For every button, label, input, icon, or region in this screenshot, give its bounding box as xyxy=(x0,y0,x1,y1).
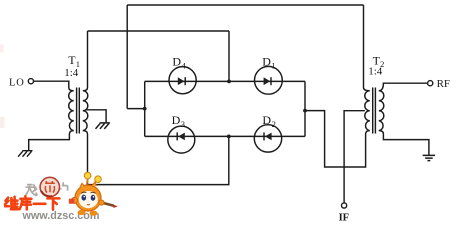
svg-text:RF: RF xyxy=(437,78,450,90)
ground: LO side hatch xyxy=(18,151,32,157)
transformer T2 secondary winding with RF lead and bottom lead xyxy=(379,83,429,155)
wire: T1 center tap xyxy=(86,110,106,123)
transformer T1 secondary winding with top lead and bottom wire to bottom node xyxy=(83,31,229,185)
node: right node xyxy=(303,109,307,113)
transformer T1 core xyxy=(77,88,80,134)
node: top junction xyxy=(227,80,231,84)
watermark mascot head xyxy=(75,185,101,211)
watermark orange char wei xyxy=(5,197,18,210)
svg-text:1: 1 xyxy=(271,61,275,71)
transformer T2 core xyxy=(373,88,376,134)
watermark orange char ku xyxy=(20,196,32,209)
watermark mascot left hand with red chip xyxy=(72,197,78,203)
svg-text:1:4: 1:4 xyxy=(368,66,383,78)
svg-text:D: D xyxy=(262,55,271,69)
svg-text:1:4: 1:4 xyxy=(64,67,79,79)
diode D2 triangle xyxy=(265,133,272,141)
diode D4 cathode bar xyxy=(184,77,186,85)
diode D1 cathode bar xyxy=(270,77,272,85)
diode D1 triangle xyxy=(264,77,271,85)
wire: inner top horizontal xyxy=(88,30,230,32)
watermark mascot face xyxy=(79,191,98,208)
diode D1 circle xyxy=(255,66,283,94)
wire: inner right vertical to top node xyxy=(228,31,230,81)
diode D3 triangle xyxy=(178,133,185,141)
port RF xyxy=(428,81,433,86)
transformer T2 primary winding with top lead xyxy=(364,5,370,134)
watermark mascot feet xyxy=(78,210,86,215)
svg-text:www.dzsc.com: www.dzsc.com xyxy=(22,210,100,222)
svg-text:2: 2 xyxy=(272,119,276,129)
port IF xyxy=(342,203,347,208)
diode D3 cathode bar xyxy=(176,132,178,140)
svg-text:4: 4 xyxy=(182,61,187,71)
wire: bridge top row xyxy=(145,80,305,82)
watermark badge crescent xyxy=(41,191,52,197)
scan artifact left edge upper xyxy=(0,45,4,53)
wire: top outer horizontal xyxy=(127,4,363,6)
watermark mascot antennae xyxy=(87,178,98,187)
watermark gray character wo xyxy=(26,184,38,196)
svg-text:IF: IF xyxy=(339,213,350,222)
transformer T1 primary winding with LO lead and ground lead xyxy=(29,81,74,151)
diode D4 triangle xyxy=(178,77,185,85)
wire: bridge right edge xyxy=(304,81,306,136)
watermark mascot crown spikes xyxy=(80,183,97,188)
ground: RF side bars xyxy=(423,155,435,160)
svg-text:D: D xyxy=(262,113,271,127)
wire: left outer vertical xyxy=(126,5,128,109)
watermark badge inner marks xyxy=(45,181,55,193)
diode D4 circle xyxy=(169,67,196,94)
wire: left node stub xyxy=(127,108,145,110)
watermark gray character pian xyxy=(57,182,67,194)
diode D3 circle xyxy=(168,126,195,153)
wire: T2 center tap to IF xyxy=(344,111,365,203)
port LO xyxy=(28,79,33,84)
wire: right node to T2 primary bottom xyxy=(305,111,366,167)
scan artifact left edge middle xyxy=(0,117,5,128)
diode D2 circle xyxy=(254,125,281,152)
node: left node xyxy=(143,107,147,111)
watermark mascot pen tip xyxy=(113,205,117,208)
watermark orange char yi xyxy=(34,203,46,206)
watermark mascot antenna balls xyxy=(84,172,91,179)
svg-text:LO: LO xyxy=(9,78,25,89)
wire: bridge bottom row xyxy=(145,135,305,137)
ground: T1 center tap hatch xyxy=(96,123,110,129)
watermark badge circle xyxy=(40,177,59,196)
watermark mascot eyes xyxy=(82,195,87,201)
watermark mascot right hand xyxy=(99,200,104,205)
svg-text:3: 3 xyxy=(181,119,185,129)
svg-text:D: D xyxy=(172,113,181,127)
diode D2 cathode bar xyxy=(263,132,265,140)
watermark orange char xia xyxy=(47,198,59,209)
node: bottom junction xyxy=(227,135,231,139)
svg-text:D: D xyxy=(172,55,181,69)
watermark mascot arm pen xyxy=(99,202,114,206)
wire: bridge left edge xyxy=(144,81,146,136)
watermark mascot eyebrows xyxy=(81,192,95,193)
watermark mascot mouth xyxy=(87,203,90,206)
